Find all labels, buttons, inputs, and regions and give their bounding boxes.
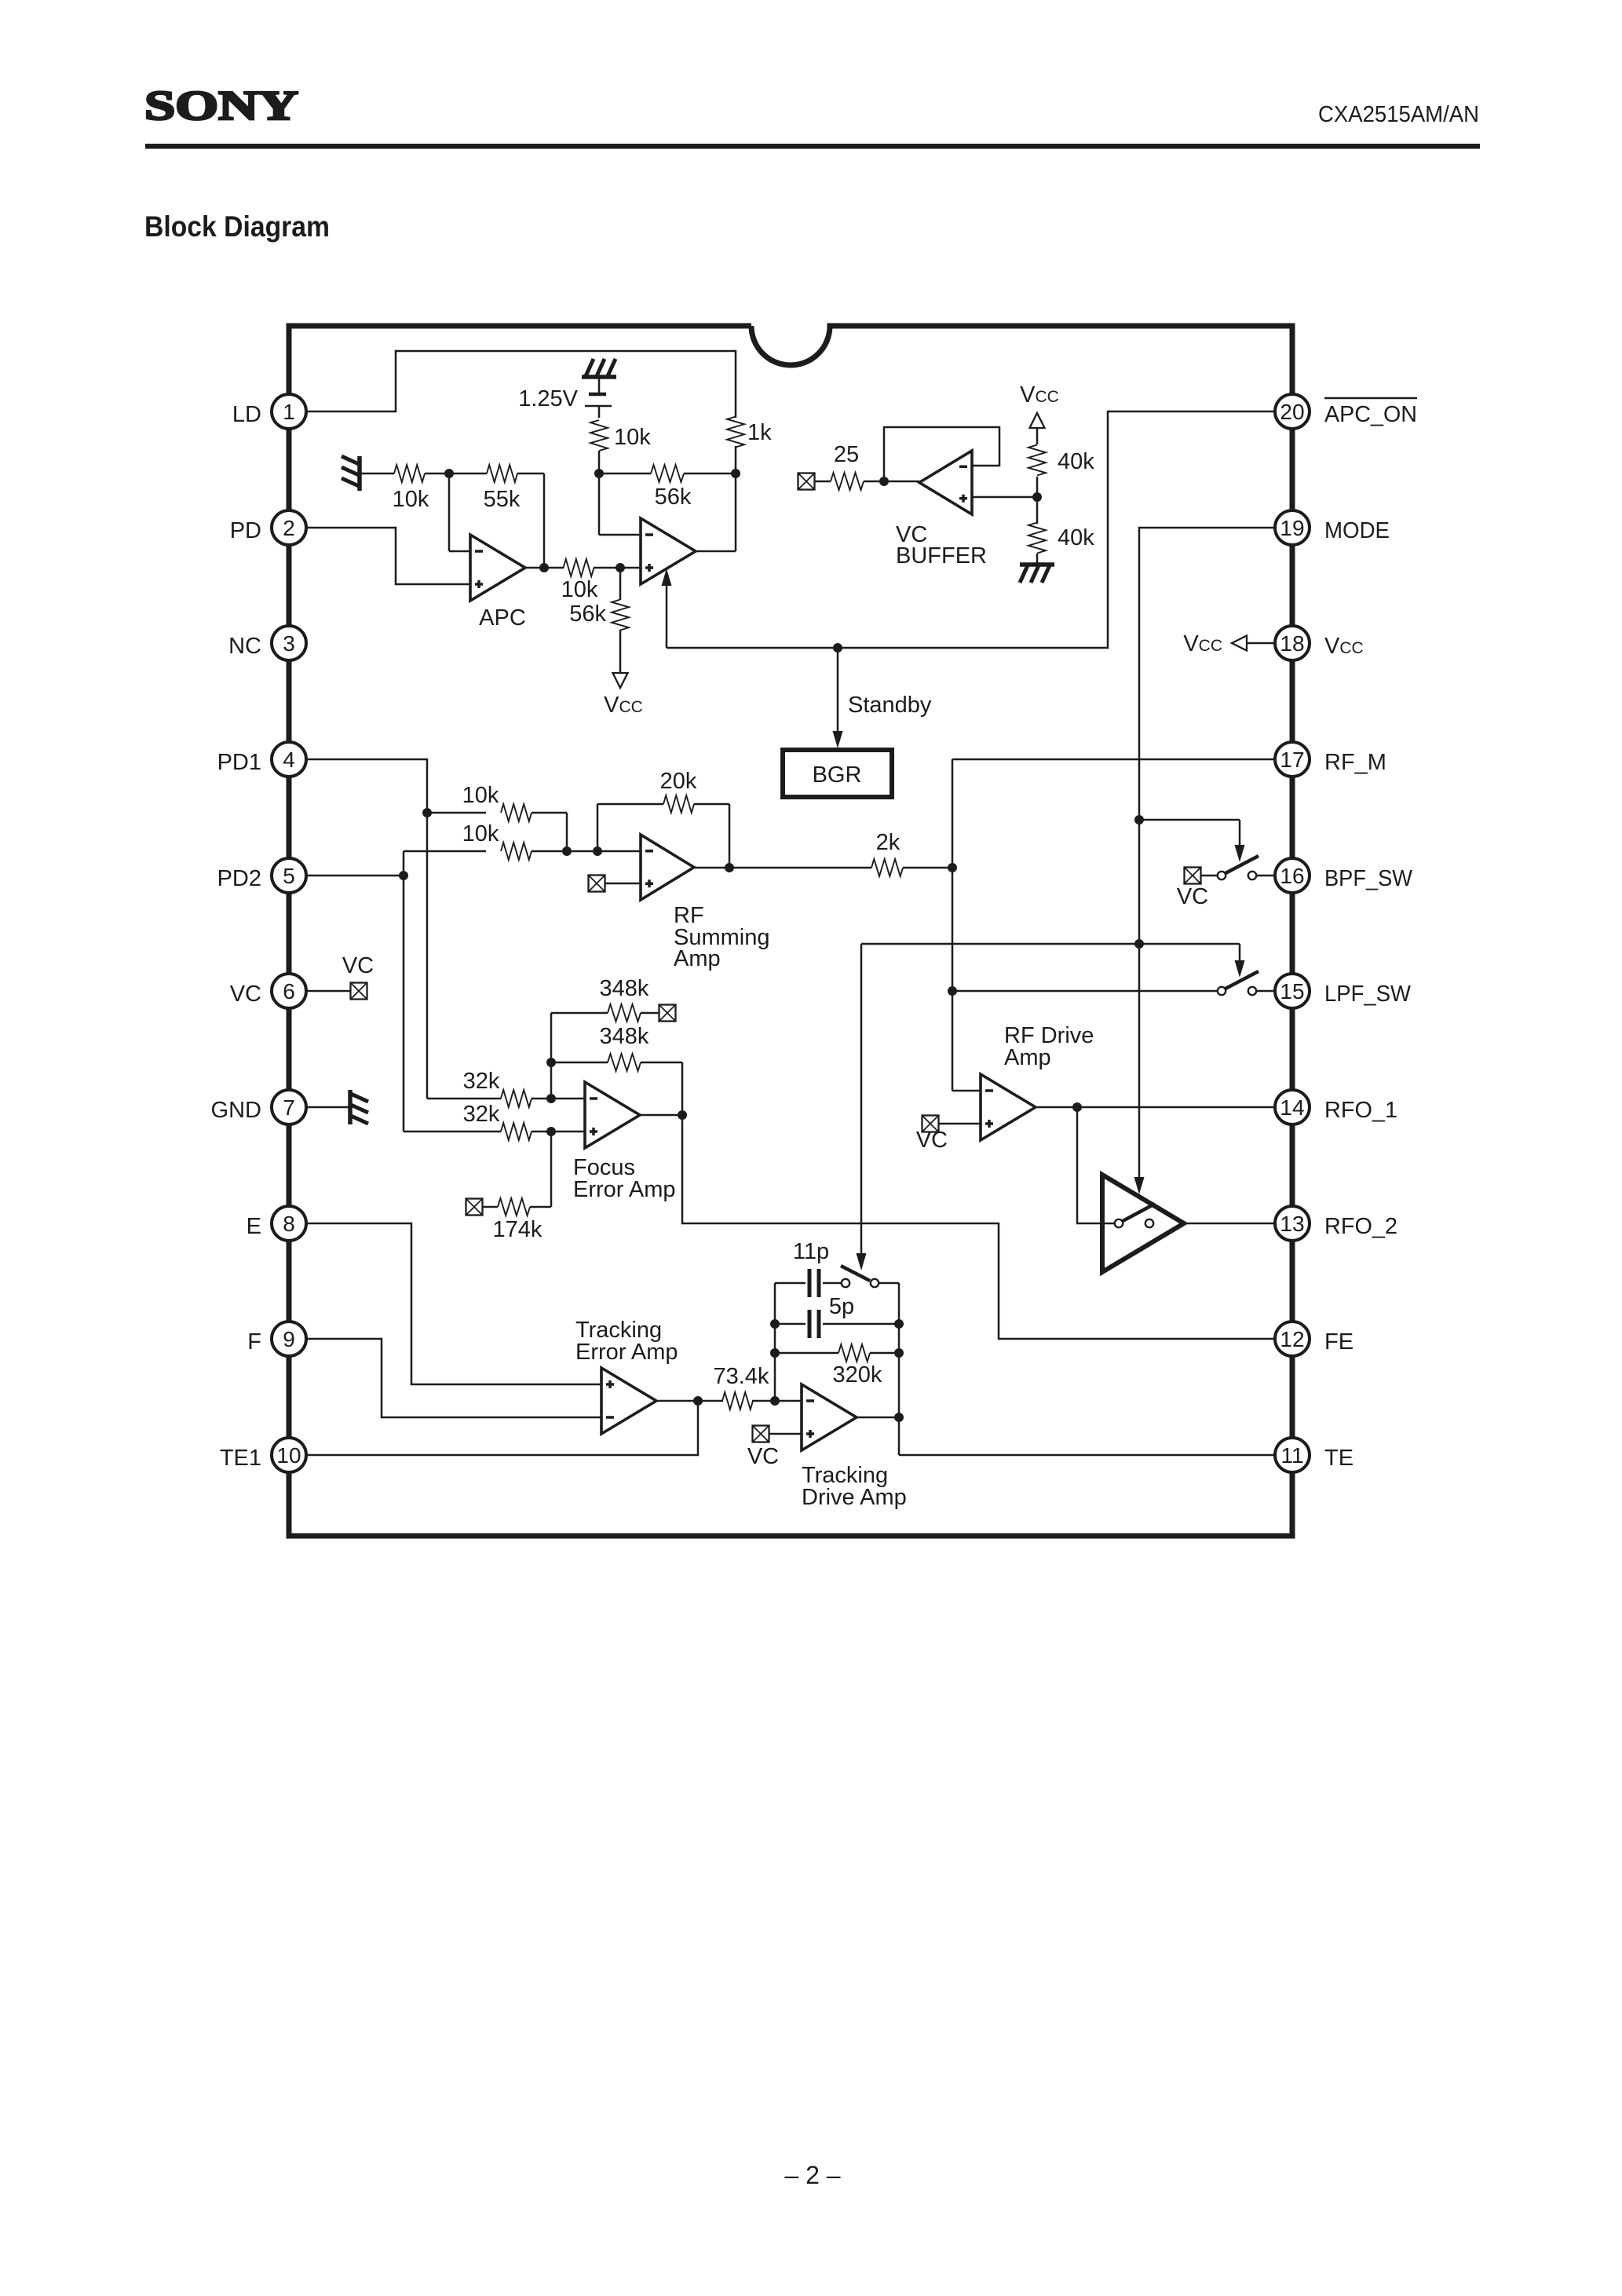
svg-text:Amp: Amp bbox=[674, 946, 721, 971]
svg-text:BGR: BGR bbox=[813, 762, 862, 788]
svg-text:PD1: PD1 bbox=[217, 750, 261, 775]
svg-text:2: 2 bbox=[283, 516, 295, 540]
svg-text:348k: 348k bbox=[600, 1024, 649, 1049]
svg-text:17: 17 bbox=[1280, 748, 1304, 772]
svg-text:E: E bbox=[247, 1214, 261, 1239]
svg-text:TE: TE bbox=[1324, 1446, 1353, 1471]
svg-text:12: 12 bbox=[1280, 1327, 1304, 1351]
svg-text:18: 18 bbox=[1280, 631, 1304, 656]
svg-text:Standby: Standby bbox=[848, 693, 932, 718]
svg-text:13: 13 bbox=[1280, 1212, 1304, 1236]
svg-text:32k: 32k bbox=[463, 1102, 500, 1127]
svg-text:RFO_1: RFO_1 bbox=[1324, 1098, 1397, 1123]
svg-text:Error Amp: Error Amp bbox=[573, 1177, 676, 1202]
svg-text:16: 16 bbox=[1280, 864, 1304, 888]
svg-text:19: 19 bbox=[1280, 516, 1304, 540]
svg-text:5p: 5p bbox=[829, 1294, 854, 1319]
svg-text:10k: 10k bbox=[614, 425, 651, 450]
svg-text:RFO_2: RFO_2 bbox=[1324, 1214, 1397, 1239]
svg-text:10: 10 bbox=[276, 1443, 301, 1468]
svg-text:25: 25 bbox=[834, 442, 859, 467]
svg-text:CXA2515AM/AN: CXA2515AM/AN bbox=[1318, 102, 1479, 127]
svg-text:VCC: VCC bbox=[1020, 382, 1059, 408]
svg-text:5: 5 bbox=[283, 864, 295, 888]
svg-text:TE1: TE1 bbox=[220, 1446, 261, 1471]
svg-text:GND: GND bbox=[211, 1098, 261, 1123]
svg-text:10k: 10k bbox=[462, 821, 499, 846]
svg-text:Error Amp: Error Amp bbox=[575, 1340, 678, 1365]
svg-text:PD: PD bbox=[230, 518, 261, 543]
svg-text:VCC: VCC bbox=[1183, 631, 1222, 656]
svg-text:20k: 20k bbox=[660, 769, 697, 794]
svg-text:VC: VC bbox=[916, 1128, 948, 1153]
svg-text:56k: 56k bbox=[655, 484, 692, 510]
svg-text:VC: VC bbox=[230, 982, 261, 1007]
svg-text:10k: 10k bbox=[561, 577, 598, 602]
svg-text:174k: 174k bbox=[493, 1217, 542, 1242]
svg-text:20: 20 bbox=[1280, 400, 1304, 424]
svg-text:32k: 32k bbox=[463, 1069, 500, 1094]
svg-text:6: 6 bbox=[283, 979, 295, 1004]
svg-text:2k: 2k bbox=[876, 830, 901, 855]
svg-text:8: 8 bbox=[283, 1212, 295, 1236]
svg-text:56k: 56k bbox=[569, 601, 606, 627]
svg-text:1.25V: 1.25V bbox=[518, 386, 578, 411]
svg-text:7: 7 bbox=[283, 1095, 295, 1120]
svg-text:F: F bbox=[247, 1329, 261, 1355]
svg-text:348k: 348k bbox=[600, 976, 649, 1001]
svg-text:40k: 40k bbox=[1058, 449, 1094, 474]
svg-text:11p: 11p bbox=[793, 1239, 829, 1264]
svg-text:Block Diagram: Block Diagram bbox=[144, 210, 330, 243]
svg-text:VCC: VCC bbox=[604, 693, 643, 718]
svg-text:73.4k: 73.4k bbox=[714, 1364, 769, 1389]
svg-text:1: 1 bbox=[283, 400, 295, 424]
svg-text:1k: 1k bbox=[747, 420, 772, 445]
svg-text:RF_M: RF_M bbox=[1324, 750, 1386, 775]
svg-text:APC: APC bbox=[479, 605, 526, 631]
svg-text:PD2: PD2 bbox=[217, 866, 261, 891]
svg-text:Amp: Amp bbox=[1004, 1045, 1051, 1070]
svg-text:11: 11 bbox=[1280, 1443, 1303, 1468]
svg-text:40k: 40k bbox=[1058, 525, 1094, 550]
svg-text:9: 9 bbox=[283, 1327, 295, 1351]
svg-text:VC: VC bbox=[747, 1444, 779, 1469]
svg-text:APC_ON: APC_ON bbox=[1324, 402, 1417, 427]
svg-text:NC: NC bbox=[228, 634, 261, 659]
svg-text:LPF_SW: LPF_SW bbox=[1324, 982, 1412, 1007]
svg-text:15: 15 bbox=[1280, 979, 1304, 1004]
svg-text:4: 4 bbox=[283, 748, 295, 772]
svg-text:VCC: VCC bbox=[1324, 634, 1364, 659]
svg-text:BPF_SW: BPF_SW bbox=[1324, 866, 1413, 891]
svg-text:VC: VC bbox=[342, 953, 374, 978]
svg-text:14: 14 bbox=[1280, 1095, 1304, 1120]
svg-text:BUFFER: BUFFER bbox=[896, 543, 987, 569]
svg-text:10k: 10k bbox=[393, 487, 429, 512]
svg-text:SONY: SONY bbox=[144, 83, 298, 129]
svg-text:10k: 10k bbox=[462, 783, 499, 808]
svg-text:MODE: MODE bbox=[1324, 518, 1390, 543]
svg-text:Drive Amp: Drive Amp bbox=[802, 1485, 907, 1510]
svg-text:LD: LD bbox=[232, 402, 261, 427]
svg-text:– 2 –: – 2 – bbox=[784, 2161, 840, 2189]
svg-text:FE: FE bbox=[1324, 1329, 1353, 1355]
svg-text:55k: 55k bbox=[484, 487, 521, 512]
svg-text:VC: VC bbox=[1177, 884, 1208, 909]
svg-text:3: 3 bbox=[283, 631, 295, 656]
svg-text:320k: 320k bbox=[833, 1362, 882, 1387]
